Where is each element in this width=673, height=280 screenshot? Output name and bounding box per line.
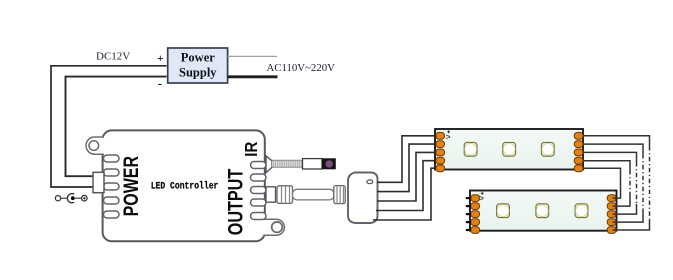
- strip LS1 left pads: [436, 132, 445, 171]
- strip LS1 polarity marking: [446, 130, 451, 141]
- output terminal fingers right: [251, 162, 267, 220]
- svg-text:>: >: [446, 132, 451, 141]
- wire strip1 pad2 to strip2 pad4 (dash-dot): [583, 144, 643, 222]
- wire strip1 pad5 to strip2 pad1 (solid): [583, 168, 621, 198]
- wire output 1 to strip1 pad1: [377, 136, 437, 183]
- IR cable strain relief cone: [266, 156, 272, 173]
- wire output 5 to strip1 pad5: [373, 168, 437, 220]
- power terminal fingers left: [104, 155, 120, 218]
- output connector J1: [348, 173, 378, 224]
- IR cable (ribbed): [272, 160, 303, 167]
- strip LS1 right pads: [574, 132, 583, 171]
- strip LS2 right pads: [607, 195, 616, 234]
- wire DC ground: [66, 77, 167, 177]
- wire strip1 pad4 to strip2 pad2 (dash-dot): [583, 161, 630, 206]
- svg-text:LED Controller: LED Controller: [151, 180, 219, 192]
- svg-text:+: +: [157, 53, 164, 65]
- wire AC live (thick): [228, 75, 278, 78]
- power supply PS1: [168, 48, 228, 83]
- svg-text:OUTPUT: OUTPUT: [223, 168, 247, 235]
- wire output 4 to strip1 pad4: [376, 161, 437, 211]
- wire AC neutral (thin): [228, 55, 277, 57]
- svg-text:Supply: Supply: [179, 66, 217, 80]
- output cable tube: [293, 189, 335, 200]
- output cable ring B: [334, 186, 345, 204]
- strip LS2 left pad stubs: [466, 198, 471, 230]
- IR receiver head with lens: [322, 158, 336, 169]
- svg-text:POWER: POWER: [119, 155, 143, 216]
- output cable ring A: [277, 186, 293, 204]
- LED strip LS2: [470, 191, 617, 231]
- wire strip1 pad3 to strip2 pad3 (dash-dot): [583, 152, 637, 214]
- svg-text:AC110V~220V: AC110V~220V: [267, 62, 336, 74]
- LED controller U1: [103, 130, 265, 241]
- strip LS1 LED D3: [541, 142, 554, 156]
- strip LS2 polarity marking: [479, 192, 484, 203]
- wire DC +12V: [51, 66, 167, 187]
- svg-text:Power: Power: [181, 51, 215, 65]
- strip LS2 LED D5: [536, 204, 549, 218]
- LED strip LS1: [435, 129, 583, 170]
- mounting tab bottom-right: [264, 219, 285, 235]
- strip LS2 LED D6: [575, 204, 588, 218]
- wire output 3 to strip1 pad3: [377, 152, 437, 201]
- strip LS1 LED D2: [503, 142, 516, 156]
- DC plug P1: [93, 172, 104, 192]
- IR receiver body: [303, 159, 323, 169]
- svg-text:DC12V: DC12V: [96, 51, 130, 63]
- svg-text:IR: IR: [242, 141, 261, 156]
- wire strip1 pad1 to strip2 pad5 (dash-dot): [583, 136, 650, 230]
- strip LS2 left pads: [471, 195, 480, 234]
- output cable stub: [266, 187, 276, 202]
- DC polarity symbol: [55, 194, 87, 203]
- svg-text:-: -: [158, 76, 162, 91]
- wire output 2 to strip1 pad2: [377, 144, 437, 192]
- strip LS1 LED D1: [464, 142, 477, 156]
- mounting tab top-left: [86, 137, 104, 154]
- strip LS2 LED D4: [497, 204, 510, 218]
